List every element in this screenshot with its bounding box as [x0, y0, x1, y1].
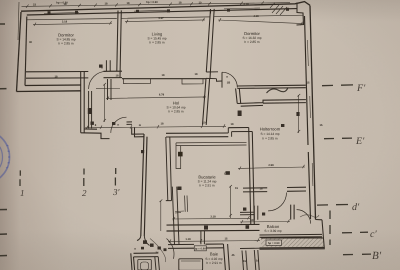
baie east wall: [223, 244, 229, 270]
svg-text:1.18: 1.18: [185, 238, 191, 241]
corridor-baie door arc: [167, 239, 175, 259]
kitchen width dim: [172, 216, 250, 221]
vestibule post: [254, 206, 257, 220]
wall hol/holterroom divider: [203, 78, 210, 125]
left edge registration dashes: [0, 24, 7, 256]
mark at hol west door: [91, 122, 94, 125]
dorm door top marks: [99, 65, 103, 68]
living bottom wall line: [122, 78, 206, 80]
hinge marks corridor bottom: [143, 240, 147, 244]
corridor east wall lower: [172, 187, 179, 245]
bathtub: [179, 259, 203, 270]
bottom wall connecting: [240, 247, 260, 249]
dormitor1 door post below: [108, 79, 112, 100]
hand squiggle correction: [267, 88, 289, 94]
left wall right dim verticals: [96, 88, 120, 90]
left bottom inner wall: [25, 84, 81, 87]
label baie tp box: [194, 246, 206, 251]
window glazing mid-lines top wall: [44, 8, 260, 13]
svg-text:18: 18: [179, 2, 182, 5]
hand squiggle at balcony door: [300, 215, 319, 218]
stamp text dots: [6, 145, 10, 168]
svg-text:18: 18: [251, 219, 254, 222]
hol/kitchen wall: [166, 133, 228, 137]
top wall outer line: [21, 2, 310, 12]
svg-text:h = 2.85 m: h = 2.85 m: [149, 40, 164, 44]
svg-text:15: 15: [225, 237, 228, 240]
corridor vertical dim: [160, 200, 163, 232]
mark kitchen top: [226, 171, 230, 175]
svg-text:24: 24: [156, 252, 159, 255]
living width dim: [125, 18, 205, 23]
axis B' dashes: [343, 253, 371, 256]
svg-text:18: 18: [162, 74, 165, 77]
holterroom width dim: [238, 165, 305, 170]
svg-text:18: 18: [127, 2, 130, 5]
label hol: [166, 101, 185, 114]
kitchen counter left cabinet: [176, 143, 181, 169]
top dim ticks: [26, 1, 264, 7]
dormitor1 door arc: [89, 71, 107, 89]
diagonal dim cluster top-right: [270, 3, 287, 16]
dormitor2 width dim: [218, 18, 303, 25]
axis 3' dashes: [114, 168, 116, 186]
svg-text:h = 2.85 m: h = 2.85 m: [262, 136, 277, 140]
svg-text:18: 18: [64, 3, 67, 6]
svg-text:F′: F′: [356, 83, 366, 94]
axis 2 dashes: [83, 169, 85, 187]
svg-text:15: 15: [320, 124, 323, 127]
kitchen south wall: [167, 224, 260, 231]
label bucatarie: [198, 175, 217, 188]
label balcon hp box: [266, 240, 282, 245]
svg-text:18: 18: [260, 188, 263, 191]
wc top wall: [134, 253, 159, 257]
dormitor1 bottom wall outer: [26, 70, 122, 73]
svg-text:10: 10: [256, 260, 259, 263]
baie dim line: [168, 239, 260, 243]
svg-text:15: 15: [307, 82, 310, 85]
dormitor2 bottom wall: [237, 85, 305, 88]
dorm1 door vertical dim: [103, 83, 106, 122]
wall living/dormitor2 top jog: [206, 9, 214, 79]
balcony door arc: [297, 210, 311, 224]
top wall inner line: [27, 9, 297, 15]
svg-text:h = 2.91 m: h = 2.91 m: [206, 261, 221, 265]
top wall window tick marks: [48, 11, 51, 14]
svg-text:c′: c′: [370, 229, 377, 240]
svg-text:h = 2.85 m: h = 2.85 m: [168, 109, 183, 113]
bottom small walls right of baie: [242, 250, 259, 270]
svg-text:6.78: 6.78: [159, 94, 165, 97]
holterroom top wall: [237, 100, 306, 107]
svg-text:1B: 1B: [227, 82, 230, 85]
holterroom bottom wall: [243, 187, 306, 192]
dormitor1 door leaf: [106, 60, 110, 71]
living/dormitor2 wall bottom block: [206, 72, 222, 81]
balcony right edge: [316, 220, 325, 249]
svg-text:4.18: 4.18: [253, 15, 259, 18]
corridor east wall upper: [166, 137, 172, 201]
hol west wall inner pair: [89, 91, 92, 128]
svg-text:18: 18: [116, 75, 119, 78]
hall door right post: [132, 128, 144, 137]
svg-text:45: 45: [232, 254, 235, 257]
balcony area marks: [243, 208, 246, 211]
right wall inner: [305, 16, 311, 219]
hol bottom wall stub: [127, 122, 133, 125]
southwest step wall: [81, 129, 110, 139]
vestibule dim line: [240, 219, 290, 223]
kitchen wall step up: [228, 128, 231, 137]
pier mark hol west wall: [88, 108, 92, 114]
dormitor1 width dim: [33, 21, 112, 26]
wc/baie divider: [155, 257, 160, 270]
svg-text:h = 2.91 m: h = 2.91 m: [199, 184, 214, 188]
axis d' vertical dashes: [329, 211, 331, 246]
label holterroom: [260, 127, 281, 141]
balcony floor hatched band: [261, 238, 324, 247]
svg-text:Holterroom: Holterroom: [260, 127, 281, 132]
svg-text:3.18: 3.18: [62, 21, 68, 24]
svg-text:15: 15: [243, 260, 246, 263]
svg-text:1: 1: [20, 188, 25, 198]
kitchen counter top: [176, 142, 247, 145]
svg-text:S = 3.39 mp: S = 3.39 mp: [264, 229, 282, 233]
kitchen right vertical dim: [229, 185, 232, 218]
label baie: [205, 252, 223, 265]
svg-text:3.18: 3.18: [210, 216, 216, 219]
label dormitor 2: [242, 31, 261, 44]
right wall outer: [310, 6, 316, 220]
label dormitor 1: [56, 33, 75, 46]
svg-text:2.18: 2.18: [243, 3, 249, 6]
axis d' dashes: [317, 204, 348, 207]
hol bottom door arc: [111, 117, 127, 133]
balcony bottom thick edge: [260, 247, 325, 250]
baie top wall: [168, 244, 223, 248]
svg-text:18: 18: [105, 3, 108, 6]
svg-text:2.98: 2.98: [268, 164, 274, 167]
corridor west wall end hook: [137, 236, 150, 246]
svg-text:Baie: Baie: [210, 252, 219, 257]
left outside dim line: [18, 2, 19, 40]
svg-text:15: 15: [235, 187, 238, 190]
stamp inner ring: [0, 137, 3, 177]
holterroom west wall upper: [236, 88, 241, 103]
svg-text:18: 18: [195, 73, 198, 76]
stamp outer ring: [0, 130, 10, 184]
svg-text:10: 10: [203, 122, 206, 125]
kitchen sink block: [178, 152, 183, 157]
top dimension line: [22, 3, 291, 7]
label living: [147, 32, 166, 45]
svg-text:3.97: 3.97: [158, 17, 164, 20]
dormitor2 door arc: [222, 72, 237, 87]
svg-text:tp = 0.90: tp = 0.90: [195, 248, 206, 251]
dormitor2 door leaf: [221, 72, 223, 87]
svg-text:10: 10: [199, 1, 202, 4]
kitchen top wall right part: [228, 128, 252, 132]
label balcon: [264, 224, 282, 233]
top-right corner pillar detail: [297, 3, 304, 26]
holterroom door arc to vestibule: [268, 193, 286, 211]
axis 1 dashes: [19, 170, 21, 186]
wall dormitor1/living: [117, 10, 122, 77]
svg-text:d′: d′: [352, 202, 360, 213]
svg-text:B′: B′: [372, 250, 382, 262]
holterroom entry mark: [238, 111, 242, 117]
wc bowl: [138, 260, 152, 270]
door swing curve detail: [150, 239, 166, 263]
svg-text:3′: 3′: [112, 187, 121, 197]
holterroom east vertical dim: [297, 94, 300, 133]
hol south dim line: [85, 124, 226, 129]
svg-text:18: 18: [55, 76, 58, 79]
kitchen counter right vertical: [185, 196, 188, 212]
svg-text:2: 2: [82, 188, 87, 198]
svg-text:h = 2.85 m: h = 2.85 m: [244, 40, 259, 44]
left bottom outer wall: [17, 90, 82, 93]
baie/kitchen divider: [201, 231, 205, 244]
svg-text:23: 23: [33, 3, 36, 6]
niche living bottom left: [124, 79, 151, 84]
svg-text:18: 18: [231, 123, 234, 126]
vestibule stub wall: [240, 212, 254, 215]
svg-text:hp = 0.90: hp = 0.90: [268, 242, 280, 245]
balcony top wall: [260, 234, 323, 237]
dormitor1 bottom wall inner: [26, 77, 122, 80]
left wall outer: [17, 12, 22, 92]
svg-text:E′: E′: [355, 136, 365, 147]
axis E' dashes: [324, 137, 352, 140]
window glazing right wall: [308, 40, 313, 186]
svg-text:18: 18: [161, 123, 164, 126]
left wall inner: [25, 17, 27, 86]
axis F' dashes: [322, 84, 353, 87]
window sill lines top rooms: [27, 15, 304, 20]
svg-text:hp = 0.90: hp = 0.90: [146, 1, 158, 4]
axis c' dashes: [342, 231, 368, 234]
svg-text:30: 30: [29, 41, 32, 44]
wc west wall: [131, 253, 135, 270]
holterroom east mark: [296, 112, 299, 116]
balcony door jamb wall: [291, 205, 294, 220]
niche living bottom right: [182, 79, 203, 84]
kitchen small marks: [175, 211, 184, 213]
corridor west wall: [141, 134, 147, 236]
kitchen east wall: [249, 128, 255, 226]
svg-text:h = 2.85 m: h = 2.85 m: [58, 41, 73, 45]
hol west wall outer: [81, 71, 85, 132]
balcony band borders: [260, 238, 325, 248]
hol width dim: [106, 95, 206, 100]
